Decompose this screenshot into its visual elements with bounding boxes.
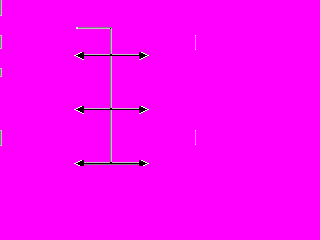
- box edge R1 (cut off at right): [195, 35, 196, 50]
- arrow A3 black double-headed line: [76, 160, 147, 166]
- arrow A2 white/silver highlights (shaft halo + head halos): [74, 106, 149, 114]
- junction: arrow A2 x trunk: [110, 108, 112, 110]
- box edge B1 (cut off at left, top): [0, 0, 2, 16]
- wire: top horizontal gray line: [76, 27, 112, 29]
- wire: vertical gray trunk: [110, 29, 112, 162]
- arrow A1 black double-headed line: [76, 52, 147, 59]
- box edge B2 (cut off at left): [0, 35, 2, 49]
- box edge R2 (cut off at right): [195, 130, 196, 145]
- arrow A1 white/silver highlights (shaft halo + head halos): [74, 52, 149, 60]
- arrow A2 black double-headed line: [76, 106, 147, 113]
- arrow A3 white/silver highlights (shaft halo + head halos): [74, 160, 149, 166]
- junction: arrow A1 x trunk: [110, 54, 112, 56]
- junction: arrow A3 x trunk (T end): [110, 162, 112, 164]
- arrow A3 gray under-shadow row: [84, 164, 139, 165]
- box edge B4 (cut off at left): [0, 130, 2, 146]
- junction: top corner black pixel: [110, 28, 111, 29]
- box edge B3 (cut off at left): [0, 68, 2, 77]
